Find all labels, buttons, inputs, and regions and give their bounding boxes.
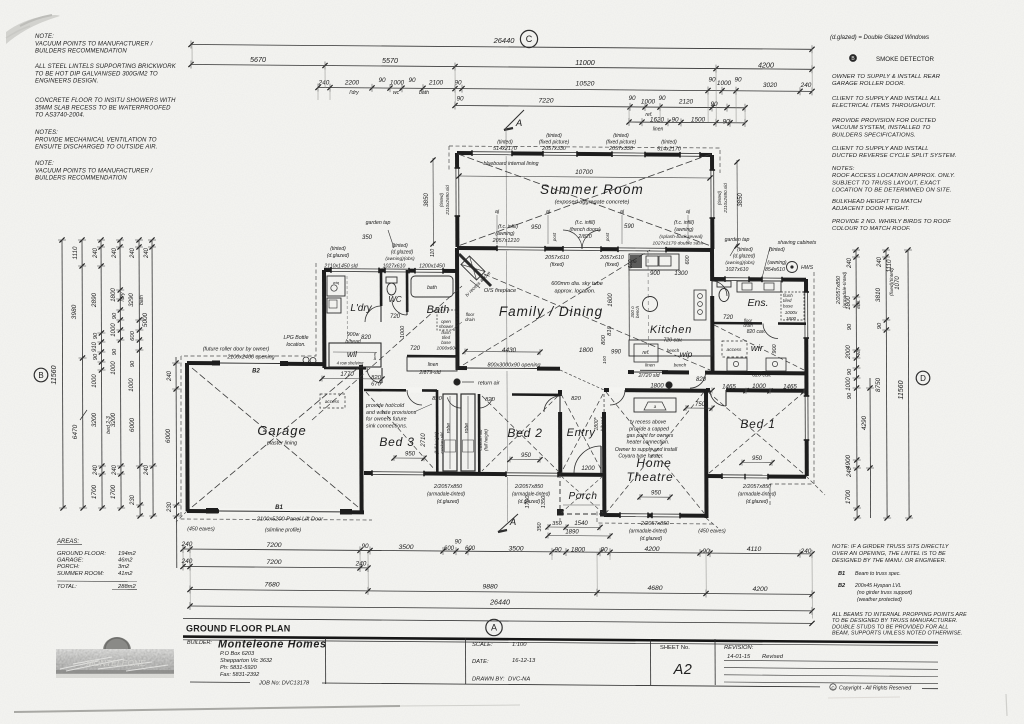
wall: west exterior laundry (322, 270, 326, 368)
svg-text:D: D (920, 374, 926, 383)
svg-text:1500: 1500 (691, 117, 706, 124)
svg-text:800x3000x90 opening: 800x3000x90 opening (487, 363, 540, 369)
wall: front bed3/bed2/entry (364, 473, 604, 475)
svg-text:(tinted): (tinted) (661, 140, 677, 146)
extension lines top dims (191, 45, 193, 65)
svg-text:WC: WC (388, 295, 402, 304)
svg-text:11560: 11560 (898, 380, 905, 399)
logo bottom-left (56, 637, 174, 678)
fixture: kitchen lower bench / ref (629, 340, 712, 356)
svg-text:90: 90 (454, 80, 462, 87)
svg-text:4430: 4430 (502, 347, 517, 354)
LPG circles (303, 357, 309, 363)
svg-text:(tinted): (tinted) (737, 247, 753, 253)
svg-text:custom sld: custom sld (478, 429, 483, 451)
svg-text:bench: bench (667, 348, 680, 353)
svg-text:Kitchen: Kitchen (650, 324, 692, 336)
svg-text:2120: 2120 (678, 99, 694, 106)
svg-text:90: 90 (710, 101, 718, 108)
svg-text:(tinted): (tinted) (439, 192, 444, 207)
svg-text:REVISION:: REVISION: (724, 645, 754, 651)
wip pantry shelves (694, 290, 706, 320)
svg-text:14-01-15: 14-01-15 (727, 654, 751, 660)
svg-text:6000: 6000 (129, 417, 136, 432)
svg-text:90: 90 (671, 117, 679, 124)
svg-text:(splash-back reveal): (splash-back reveal) (659, 234, 703, 240)
fixture: bath shower corner (437, 310, 457, 330)
wall: garage top (187, 363, 324, 364)
svg-text:A: A (515, 118, 522, 129)
wall: laundry-bath north (324, 270, 457, 271)
svg-text:ALL BEAMS TO INTERNAL PROPPING: ALL BEAMS TO INTERNAL PROPPING POINTS AR… (831, 612, 967, 618)
wall: wc/bath partition (406, 270, 409, 312)
svg-text:DESIGNED BY THE MANU. OR ENGIN: DESIGNED BY THE MANU. OR ENGINEER. (832, 558, 946, 564)
svg-text:(awning)(obs): (awning)(obs) (725, 260, 755, 266)
wir access panel (722, 341, 747, 357)
svg-text:90: 90 (408, 77, 416, 84)
copyright (830, 684, 836, 690)
garage access dashed box (320, 394, 345, 408)
svg-text:1465: 1465 (722, 384, 736, 391)
svg-text:7680: 7680 (264, 582, 279, 589)
ens door arc (709, 281, 714, 296)
dim chain: 1110/3980/6470 left (82, 240, 83, 508)
svg-text:drain: drain (465, 317, 475, 322)
svg-text:blueboard internal lining: blueboard internal lining (483, 161, 538, 167)
diagonals: family X (484, 274, 710, 370)
svg-text:46m2: 46m2 (118, 558, 133, 564)
svg-text:TOTAL:: TOTAL: (57, 584, 77, 590)
svg-text:bath: bath (139, 295, 145, 305)
svg-text:Garage: Garage (257, 423, 306, 438)
svg-text:custom sld: custom sld (440, 432, 445, 454)
svg-text:11560: 11560 (51, 365, 58, 384)
svg-text:l'dry: l'dry (349, 90, 359, 96)
svg-text:240: 240 (144, 464, 150, 476)
svg-text:(armadale-tinted): (armadale-tinted) (427, 492, 465, 498)
svg-text:820: 820 (485, 397, 495, 403)
svg-text:4200: 4200 (752, 586, 767, 593)
svg-text:C: C (526, 34, 533, 44)
svg-text:1800: 1800 (571, 547, 586, 554)
svg-text:(weather protected): (weather protected) (857, 597, 902, 603)
diagonals: bed3 (366, 392, 435, 470)
svg-text:2100: 2100 (428, 80, 444, 87)
svg-text:heater connection.: heater connection. (627, 440, 670, 446)
fixture: bath tub (411, 276, 453, 297)
svg-text:BEAM, SUPPORTS UNLESS NOTED OT: BEAM, SUPPORTS UNLESS NOTED OTHERWISE. (832, 631, 963, 637)
svg-text:1890: 1890 (565, 530, 579, 536)
svg-text:4 row shelving: 4 row shelving (337, 361, 364, 366)
svg-text:DOUBLE STUDS TO BE PROVIDED FO: DOUBLE STUDS TO BE PROVIDED FOR ALL (832, 624, 948, 630)
svg-text:8750: 8750 (875, 377, 882, 392)
svg-text:(exposed aggregate concrete): (exposed aggregate concrete) (555, 200, 630, 206)
svg-text:288m2: 288m2 (117, 584, 137, 590)
svg-text:950: 950 (531, 225, 542, 231)
svg-text:110: 110 (430, 249, 436, 257)
svg-text:(full height): (full height) (484, 429, 489, 451)
svg-text:1000x600: 1000x600 (436, 346, 457, 352)
scan smudge top-left (6, 15, 60, 44)
svg-text:access: access (727, 348, 743, 353)
svg-text:GARAGE ROLLER DOOR.: GARAGE ROLLER DOOR. (832, 81, 905, 87)
svg-text:bath: bath (419, 90, 429, 96)
svg-text:90: 90 (722, 119, 730, 126)
svg-text:200x45 Hyspan LVL: 200x45 Hyspan LVL (854, 583, 902, 589)
svg-text:(awning): (awning) (495, 231, 515, 237)
svg-text:DVC-NA: DVC-NA (508, 677, 530, 683)
svg-text:10520: 10520 (576, 81, 595, 88)
wall: summer room top (457, 153, 712, 155)
svg-text:1000: 1000 (752, 383, 766, 390)
svg-text:B1: B1 (275, 505, 283, 511)
svg-text:600: 600 (685, 256, 691, 265)
svg-text:720 cav.: 720 cav. (663, 338, 682, 344)
svg-text:(d.glazed): (d.glazed) (391, 250, 414, 256)
svg-text:PROVIDE 2 NO. WHIRLY BIRDS TO: PROVIDE 2 NO. WHIRLY BIRDS TO ROOF (832, 219, 951, 225)
grid bubble C (520, 30, 537, 47)
svg-text:514x2170: 514x2170 (493, 146, 517, 152)
fixture: ens toilet (717, 281, 731, 287)
svg-text:provide a capped: provide a capped (628, 427, 670, 433)
svg-text:(full height): (full height) (434, 432, 439, 454)
svg-text:1300: 1300 (674, 271, 688, 277)
svg-text:2/820: 2/820 (577, 234, 592, 240)
svg-text:return air: return air (478, 381, 500, 387)
svg-text:A: A (509, 517, 516, 528)
svg-text:600: 600 (444, 546, 455, 552)
hall door arc to kitchen (689, 370, 705, 376)
svg-text:90: 90 (877, 322, 883, 329)
svg-text:1600: 1600 (608, 293, 614, 307)
wir fixtures (727, 358, 747, 371)
svg-text:1700: 1700 (845, 489, 852, 504)
svg-text:800: 800 (601, 334, 607, 344)
left garage dim 240/6000/230 (175, 357, 178, 568)
svg-text:600: 600 (628, 260, 634, 269)
svg-text:TO BE HOT DIP GALVANISED 300G/: TO BE HOT DIP GALVANISED 300G/M2 TO (35, 71, 158, 77)
svg-text:7200: 7200 (266, 559, 281, 566)
svg-text:820 cav.: 820 cav. (752, 373, 771, 379)
svg-text:garden tap: garden tap (725, 237, 750, 243)
svg-text:6470: 6470 (72, 424, 79, 439)
svg-text:BUILDERS SPECIFICATIONS.: BUILDERS SPECIFICATIONS. (832, 132, 916, 138)
svg-text:3850: 3850 (423, 193, 430, 207)
svg-text:1000: 1000 (111, 361, 117, 375)
svg-text:ens.: ens. (856, 299, 862, 308)
svg-text:shaving cabinets: shaving cabinets (778, 240, 817, 246)
svg-text:B: B (38, 371, 43, 380)
svg-text:590: 590 (624, 224, 635, 230)
fixture: laundry fr (327, 298, 341, 313)
svg-text:CLIENT TO SUPPLY AND INSTALL: CLIENT TO SUPPLY AND INSTALL (832, 146, 929, 152)
step dashed family to entry (560, 370, 604, 390)
svg-text:820: 820 (696, 377, 707, 383)
wall: right wing north (ens) (712, 277, 806, 282)
svg-text:A2: A2 (673, 662, 693, 678)
svg-text:240: 240 (112, 247, 118, 259)
svg-text:3m2: 3m2 (118, 564, 130, 570)
svg-text:100: 100 (602, 356, 608, 364)
svg-text:(awning): (awning) (674, 227, 694, 233)
svg-text:5570: 5570 (382, 56, 398, 65)
svg-text:approx. location.: approx. location. (554, 289, 595, 295)
dim chain: ref 1620 linen (629, 121, 745, 124)
svg-text:Ph: 5831-5920: Ph: 5831-5920 (220, 665, 258, 671)
svg-text:350: 350 (552, 521, 562, 527)
svg-text:3200: 3200 (91, 412, 98, 427)
svg-text:950: 950 (752, 456, 763, 462)
grid bubble A bottom (486, 619, 502, 635)
svg-text:OWNER TO SUPPLY & INSTALL REAR: OWNER TO SUPPLY & INSTALL REAR (832, 74, 941, 80)
svg-text:GROUND FLOOR:: GROUND FLOOR: (57, 551, 106, 557)
svg-text:1000: 1000 (846, 377, 852, 391)
svg-text:1700: 1700 (110, 484, 117, 499)
svg-text:VACUUM POINTS TO MANUFACTURER: VACUUM POINTS TO MANUFACTURER / (35, 41, 154, 47)
svg-text:1027x610: 1027x610 (726, 267, 749, 273)
svg-text:240: 240 (847, 257, 853, 269)
svg-text:600: 600 (130, 330, 136, 340)
section marker A top (504, 110, 524, 130)
svg-text:240: 240 (167, 370, 173, 382)
svg-text:shower: shower (439, 324, 454, 329)
svg-text:bath: bath (427, 285, 437, 291)
dim chain: 5670/5570/11000/4200 (191, 65, 812, 70)
svg-text:41m2: 41m2 (118, 571, 133, 577)
svg-text:OVER AN OPENING, THE LINTEL IS: OVER AN OPENING, THE LINTEL IS TO BE (832, 551, 946, 557)
robe door arcs (447, 397, 461, 408)
garage entry door arc (366, 365, 382, 371)
svg-text:3980: 3980 (71, 304, 78, 319)
svg-text:4900: 4900 (845, 454, 852, 469)
laundry bench dashes (346, 276, 348, 340)
svg-text:(f.c. infill): (f.c. infill) (674, 220, 694, 226)
svg-text:Revised: Revised (762, 654, 784, 660)
svg-text:2/2057x850: 2/2057x850 (742, 484, 771, 490)
wc door arc (392, 300, 407, 315)
svg-text:Ens.: Ens. (747, 297, 768, 309)
svg-text:GARAGE:: GARAGE: (57, 558, 84, 564)
svg-text:NOTE: IF A GIRDER TRUSS SITS D: NOTE: IF A GIRDER TRUSS SITS DIRECTLY (832, 544, 949, 550)
svg-text:DRAWN BY:: DRAWN BY: (472, 677, 505, 683)
fixture: kitchen top bench and sink (629, 254, 679, 270)
wall: garage east (359, 365, 364, 511)
svg-text:HWS: HWS (801, 265, 814, 271)
svg-text:600: 600 (465, 546, 476, 552)
svg-text:TO AS3740-2004.: TO AS3740-2004. (35, 113, 85, 119)
smoke detector hall (666, 382, 672, 388)
svg-text:4290: 4290 (861, 415, 868, 430)
svg-text:240: 240 (181, 541, 193, 548)
svg-text:2057x330: 2057x330 (541, 146, 566, 152)
svg-text:350: 350 (362, 235, 373, 241)
svg-text:1000: 1000 (400, 325, 406, 338)
grid bubble D (916, 371, 930, 385)
svg-text:2057x610: 2057x610 (544, 255, 569, 261)
svg-text:(armadale-tinted): (armadale-tinted) (629, 529, 667, 535)
svg-text:240: 240 (318, 80, 330, 87)
svg-text:910: 910 (92, 341, 98, 352)
svg-text:SUMMER ROOM:: SUMMER ROOM: (57, 571, 104, 577)
svg-text:NOTE:: NOTE: (35, 161, 54, 167)
svg-text:b/head: b/head (600, 417, 605, 431)
svg-text:CLIENT TO SUPPLY AND INSTALL A: CLIENT TO SUPPLY AND INSTALL ALL (832, 96, 941, 102)
theatre recess shelf (634, 398, 676, 412)
svg-text:BULKHEAD HEIGHT TO MATCH: BULKHEAD HEIGHT TO MATCH (832, 199, 923, 205)
svg-text:(d.glazed): (d.glazed) (327, 253, 350, 259)
svg-text:ENGINEERS DESIGN.: ENGINEERS DESIGN. (35, 79, 98, 85)
svg-text:B2: B2 (252, 369, 260, 375)
svg-text:base: base (441, 340, 451, 345)
svg-text:Owner to supply and install: Owner to supply and install (615, 447, 678, 453)
fixture: kitchen cooktop circle (643, 297, 658, 312)
svg-text:2000: 2000 (845, 345, 852, 360)
dim chain: laundry/wc/bath widths (318, 88, 812, 92)
wall: bath east / family west (455, 248, 460, 370)
svg-text:90: 90 (628, 95, 636, 102)
svg-text:1027x610: 1027x610 (383, 264, 406, 270)
svg-text:1700: 1700 (91, 484, 98, 499)
svg-text:(armadale-tinted): (armadale-tinted) (738, 492, 776, 498)
svg-text:2057x610: 2057x610 (599, 255, 624, 261)
svg-text:post: post (605, 232, 610, 242)
bed3 door arc (406, 387, 422, 393)
svg-text:2200: 2200 (344, 80, 360, 87)
svg-text:NOTES:: NOTES: (832, 166, 855, 172)
svg-text:(fixed): (fixed) (605, 262, 619, 268)
svg-text:tv recess above: tv recess above (630, 420, 666, 426)
diagonal: wir (714, 325, 804, 370)
svg-text:Bed 2: Bed 2 (507, 426, 542, 440)
svg-text:bench: bench (674, 363, 687, 368)
title block dividers (325, 638, 327, 684)
svg-text:350: 350 (537, 523, 543, 532)
svg-text:(tinted): (tinted) (330, 246, 346, 252)
svg-text:l'dry: l'dry (120, 292, 126, 302)
svg-text:3850: 3850 (737, 193, 744, 207)
svg-text:wil: wil (347, 349, 358, 359)
svg-text:6000: 6000 (165, 428, 172, 443)
svg-text:brm.: brm. (372, 352, 377, 360)
svg-text:900: 900 (650, 271, 661, 277)
svg-text:PROVIDE PROVISION FOR DUCTED: PROVIDE PROVISION FOR DUCTED (832, 118, 937, 124)
svg-text:240: 240 (93, 464, 99, 476)
diagonals: theatre X (606, 392, 704, 513)
wall: garage south with panel door (187, 511, 364, 512)
wall: summer room south (family north) (457, 248, 712, 250)
svg-text:linen: linen (645, 363, 655, 368)
svg-text:240: 240 (355, 561, 367, 568)
svg-text:2710: 2710 (421, 433, 427, 448)
svg-text:90: 90 (600, 547, 608, 554)
svg-text:garden tap: garden tap (366, 220, 391, 226)
svg-text:ROOF ACCESS LOCATION APPROX. O: ROOF ACCESS LOCATION APPROX. ONLY. (832, 173, 955, 179)
svg-text:1110: 1110 (72, 246, 79, 259)
svg-text:and waste provisions: and waste provisions (366, 410, 417, 416)
bed2 door arc (557, 396, 562, 412)
svg-text:7200: 7200 (266, 542, 281, 549)
svg-text:b/head: b/head (345, 339, 361, 345)
svg-text:1540: 1540 (574, 521, 588, 527)
svg-text:A: A (491, 623, 497, 633)
wall: garage west (185, 363, 190, 511)
svg-text:7220: 7220 (538, 98, 553, 105)
svg-text:wtq: wtq (333, 281, 340, 285)
svg-text:(d.glazed): (d.glazed) (746, 499, 769, 505)
diagonals: bed2 (482, 396, 558, 471)
svg-text:(d.glazed) = Double Glazed: (d.glazed) = Double Glazed Windows (830, 35, 929, 41)
porch step lines (563, 504, 600, 506)
svg-text:Beam to truss spec.: Beam to truss spec. (855, 571, 901, 577)
svg-text:90: 90 (847, 323, 853, 330)
svg-text:(d.glazed): (d.glazed) (437, 499, 460, 505)
svg-text:linen: linen (428, 362, 439, 368)
svg-text:(fixed): (fixed) (550, 262, 564, 268)
svg-text:240: 240 (130, 247, 136, 259)
fixture: ens shower (781, 292, 804, 320)
svg-text:1000: 1000 (390, 80, 405, 87)
svg-text:26440: 26440 (489, 598, 510, 607)
svg-text:(no girder truss support): (no girder truss support) (857, 590, 913, 596)
svg-text:P.O Box 6203: P.O Box 6203 (220, 651, 255, 657)
svg-text:post: post (552, 232, 557, 242)
svg-text:1800: 1800 (579, 347, 594, 354)
svg-text:wc: wc (393, 90, 400, 96)
svg-text:90: 90 (847, 392, 853, 399)
wall: ens west (710, 249, 715, 372)
svg-text:ALL STEEL LINTELS SUPPORTING B: ALL STEEL LINTELS SUPPORTING BRICKWORK (34, 64, 177, 70)
svg-text:750: 750 (695, 402, 706, 408)
section marker A bottom (498, 514, 518, 532)
entry front door arc and leaf (600, 446, 602, 473)
dim chain: right 1110/3810/8750 (886, 250, 887, 518)
svg-text:11000: 11000 (575, 58, 594, 67)
dim chain: left detail 4 (152, 240, 153, 516)
svg-text:3810: 3810 (875, 287, 882, 302)
svg-text:SUBJECT TO TRUSS LAYOUT, EXACT: SUBJECT TO TRUSS LAYOUT, EXACT (832, 180, 941, 186)
summer side dims 3850 (432, 158, 434, 246)
svg-text:35MM SLAB RECESS TO BE WATERPR: 35MM SLAB RECESS TO BE WATERPROOFED (35, 105, 171, 111)
svg-text:DATE:: DATE: (472, 659, 489, 665)
svg-text:1000x: 1000x (785, 310, 798, 315)
svg-text:gas point for owners: gas point for owners (627, 433, 674, 439)
wall: kitchen/wir south (628, 372, 806, 373)
dim chain: 11560 right (908, 250, 909, 518)
wall: laundry/wc partition (380, 270, 383, 322)
svg-text:2057x330: 2057x330 (608, 146, 633, 152)
fixture: ens vanity (737, 281, 781, 292)
svg-text:Shepparton Vic 3632: Shepparton Vic 3632 (220, 658, 273, 664)
dim chain: left detail 1 (101, 240, 102, 508)
svg-text:1000: 1000 (717, 80, 732, 87)
svg-text:VACUUM SYSTEM, INSTALLED TO: VACUUM SYSTEM, INSTALLED TO (832, 125, 931, 131)
rule above title strip (183, 619, 812, 624)
svg-text:(fixed picture): (fixed picture) (539, 140, 570, 146)
svg-text:BUILDERS RECOMMENDATION: BUILDERS RECOMMENDATION (35, 176, 127, 182)
svg-text:194m2: 194m2 (118, 551, 137, 557)
svg-text:GROUND FLOOR PLAN: GROUND FLOOR PLAN (186, 624, 290, 634)
fixture: wc toilet (386, 277, 397, 283)
scan edge right line (1006, 694, 1007, 716)
svg-text:AREAS:: AREAS: (56, 539, 79, 545)
svg-text:Summer Room: Summer Room (540, 182, 644, 197)
wall: bed1 north (706, 388, 806, 393)
diagonal: garage valley to bath (312, 286, 462, 420)
svg-text:Theatre: Theatre (627, 470, 674, 484)
laundry door arc (378, 306, 384, 322)
svg-text:1000: 1000 (641, 99, 656, 106)
svg-text:(f.c. infill): (f.c. infill) (575, 220, 595, 226)
